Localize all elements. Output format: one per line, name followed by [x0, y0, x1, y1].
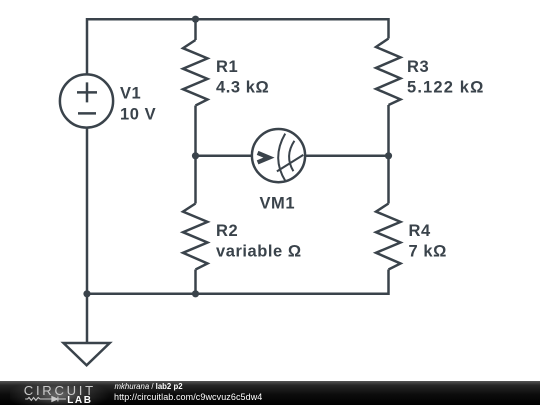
svg-text:VM1: VM1 — [260, 195, 296, 213]
VM1 needle — [277, 155, 303, 172]
logo resistor squiggle and diode — [25, 397, 66, 402]
svg-text:V1: V1 — [120, 85, 141, 103]
VM1 dial arc left — [278, 134, 285, 182]
wire right branch R3 lead / R4 lead — [387, 105, 390, 204]
svg-text:4.3 kΩ: 4.3 kΩ — [216, 79, 269, 97]
CircuitLab logo — [0, 381, 110, 405]
wire top rail — [87, 19, 389, 73]
node junction ground — [83, 290, 90, 297]
svg-text:10 V: 10 V — [120, 105, 156, 123]
voltage source V1 — [60, 74, 113, 127]
voltmeter VM1 body — [252, 129, 305, 182]
resistor R1 — [183, 40, 208, 106]
node junction VM1 left — [192, 152, 199, 159]
V1 minus sign — [78, 112, 96, 115]
VM1 dial arc right — [289, 141, 294, 171]
VM1 chevron — [258, 153, 269, 163]
svg-text:R1: R1 — [216, 58, 238, 76]
svg-text:variable Ω: variable Ω — [216, 243, 302, 261]
wire bottom rail — [87, 270, 389, 294]
resistor R2 — [183, 204, 208, 270]
node junction top rail / R1 — [192, 16, 199, 23]
wire middle branch R2 leads — [194, 156, 197, 204]
svg-text:R3: R3 — [407, 58, 429, 76]
resistor R3 — [376, 39, 401, 106]
wire middle branch R1 leads — [194, 19, 197, 40]
svg-text:LAB: LAB — [67, 395, 92, 405]
svg-text:R2: R2 — [216, 222, 238, 240]
wire voltmeter horizontal left — [196, 155, 253, 158]
footer credit line 2 — [114, 393, 262, 402]
wire voltmeter horizontal right — [305, 155, 389, 158]
wire left branch bottom (V1 to bottom rail) — [86, 129, 89, 294]
node junction bottom rail / R2 — [192, 290, 199, 297]
node junction VM1 right — [385, 152, 392, 159]
footer credit line 1 — [115, 383, 183, 391]
footer bar — [0, 381, 540, 405]
logo glow — [10, 381, 110, 405]
svg-text:7 kΩ: 7 kΩ — [409, 243, 447, 261]
resistor R4 — [376, 204, 401, 270]
svg-text:5.122 kΩ: 5.122 kΩ — [407, 79, 484, 97]
ground symbol — [86, 294, 89, 343]
V1 plus sign — [77, 82, 97, 102]
svg-text:R4: R4 — [409, 222, 431, 240]
